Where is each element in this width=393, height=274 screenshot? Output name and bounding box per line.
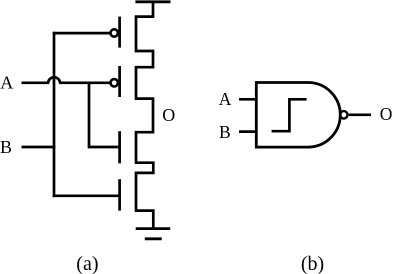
pmos Q2 (gate driven by A) (111, 66, 154, 99)
wire input A with crossover hop over net B (22, 77, 111, 83)
wire input B (part b) (239, 130, 258, 133)
wire Q4 source to ground (152, 209, 155, 228)
svg-text:O: O (162, 105, 175, 125)
wire Q1 source to Q2 drain (152, 50, 155, 69)
wire net B to pmos Q1 gate (53, 32, 111, 35)
svg-text:(a): (a) (76, 253, 98, 274)
svg-text:(b): (b) (301, 253, 324, 274)
svg-text:B: B (219, 122, 231, 142)
schmitt trigger hysteresis symbol (272, 99, 307, 131)
svg-text:B: B (0, 137, 12, 157)
svg-text:A: A (219, 89, 232, 109)
wire output (part b) (349, 113, 371, 116)
wire input B (22, 146, 56, 149)
nand gate U1 body (256, 83, 340, 148)
pmos Q1 (gate driven by B) (111, 17, 154, 51)
wire Q3 source to Q4 drain (152, 161, 155, 174)
ground symbol (136, 229, 171, 239)
wire input A (part b) (239, 98, 258, 101)
wire net B to nmos Q4 gate (53, 194, 119, 197)
wire VDD to pmos stack (152, 2, 155, 18)
wire output node (Q2 to Q3) (152, 97, 155, 133)
nmos Q3 (gate driven by A) (120, 131, 154, 163)
svg-text:A: A (0, 72, 13, 92)
svg-text:O: O (380, 104, 393, 124)
bubble inverter dot (part b) (340, 111, 347, 118)
power rail VDD (top bar) (135, 0, 170, 3)
wire net B vertical (53, 32, 56, 197)
wire net A branch to nmos Q3 gate (89, 83, 119, 147)
nmos Q4 (gate driven by B) (120, 173, 154, 211)
